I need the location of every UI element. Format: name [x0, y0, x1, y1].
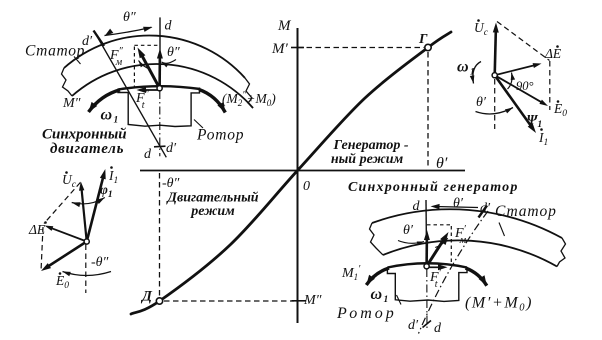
svg-text:1: 1 [384, 295, 389, 305]
svg-text:d: d [413, 199, 421, 214]
svg-text:двигатель: двигатель [50, 141, 124, 157]
svg-text:d′: d′ [480, 201, 491, 216]
svg-text:θ″: θ″ [167, 45, 180, 60]
svg-text:ω: ω [457, 59, 469, 76]
svg-text:θ″: θ″ [123, 10, 136, 25]
svg-text:Ротор: Ротор [336, 305, 397, 322]
svg-text:d: d [144, 147, 152, 162]
svg-text:M″: M″ [62, 96, 81, 111]
svg-text:θ′: θ′ [453, 196, 464, 211]
svg-text:Г: Г [418, 32, 428, 47]
svg-text:d: d [434, 321, 442, 336]
svg-text:ω: ω [371, 286, 383, 303]
svg-text:-θ″: -θ″ [91, 255, 109, 270]
svg-text:Ротор: Ротор [196, 127, 244, 144]
svg-text:d′: d′ [166, 141, 177, 156]
svg-text:Статор: Статор [495, 203, 557, 220]
svg-text:d′: d′ [82, 34, 93, 49]
svg-text:M″: M″ [303, 293, 322, 308]
svg-text:режим: режим [190, 204, 235, 219]
svg-text:θ′: θ′ [436, 155, 448, 172]
svg-text:1: 1 [114, 116, 119, 126]
svg-text:M: M [277, 18, 292, 34]
svg-text:d′: d′ [408, 318, 419, 333]
svg-text:-θ″: -θ″ [162, 176, 180, 191]
svg-text:Д: Д [140, 289, 153, 305]
svg-text:ΔE: ΔE [544, 46, 562, 61]
svg-text:M′: M′ [271, 41, 288, 57]
svg-text:0: 0 [303, 179, 310, 194]
svg-text:θ′: θ′ [476, 95, 487, 110]
svg-text:ный режим: ный режим [331, 152, 404, 167]
svg-text:Синхронный генератор: Синхронный генератор [348, 180, 519, 195]
svg-text:θ′: θ′ [403, 223, 414, 238]
svg-text:1: 1 [470, 68, 475, 78]
svg-text:Статор: Статор [25, 43, 85, 60]
svg-text:M1′: M1′ [341, 264, 361, 282]
svg-text:ΔE: ΔE [28, 222, 46, 237]
svg-text:d: d [165, 19, 173, 34]
svg-text:Генератор -: Генератор - [332, 138, 408, 153]
svg-text:90°: 90° [516, 79, 534, 93]
svg-text:ω: ω [101, 107, 113, 124]
